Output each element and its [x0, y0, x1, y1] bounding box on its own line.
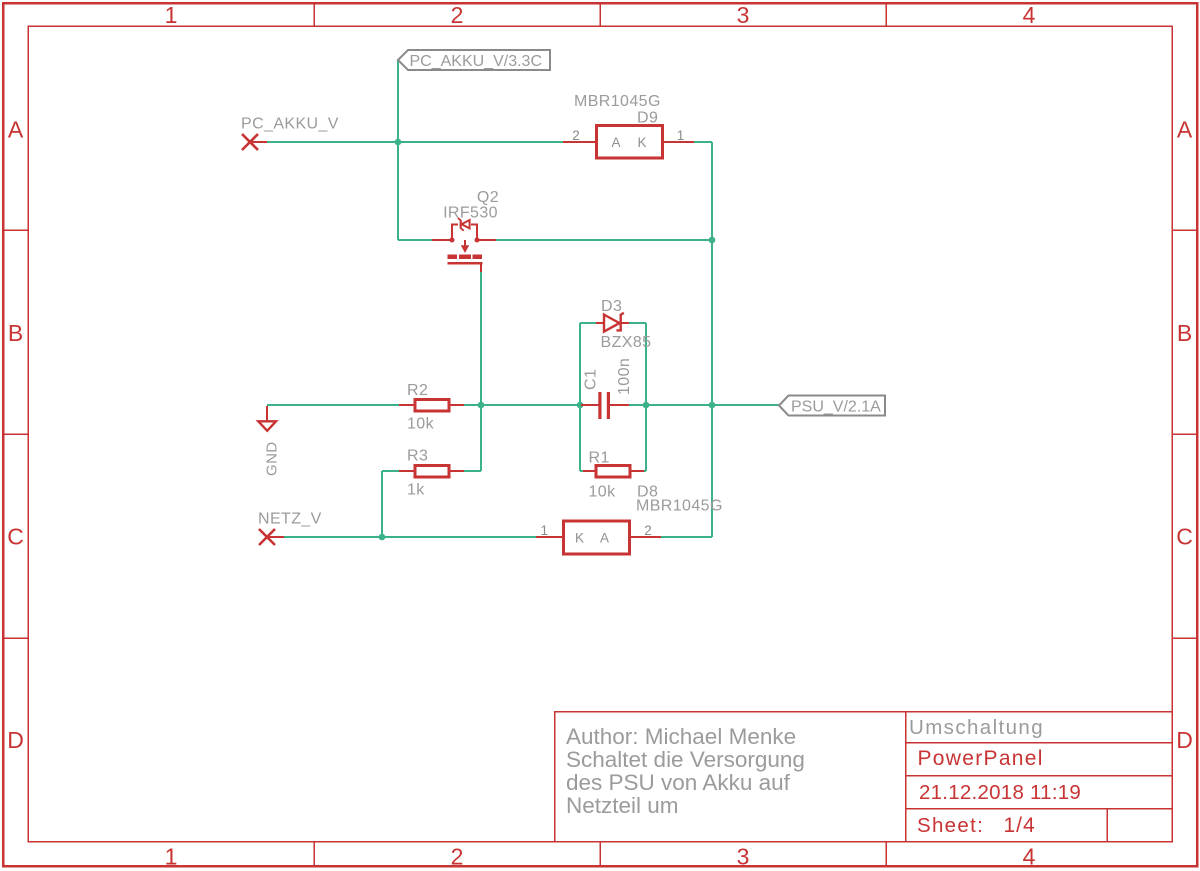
svg-text:A: A [600, 531, 609, 546]
svg-text:D9: D9 [637, 110, 658, 127]
svg-text:K: K [575, 531, 584, 546]
svg-text:3: 3 [737, 844, 750, 870]
svg-text:Netzteil um: Netzteil um [566, 793, 679, 818]
svg-text:Umschaltung: Umschaltung [909, 716, 1044, 739]
svg-text:B: B [1177, 320, 1192, 346]
svg-text:1: 1 [165, 2, 178, 28]
svg-text:A: A [1177, 117, 1193, 143]
svg-text:PC_AKKU_V: PC_AKKU_V [241, 116, 339, 133]
svg-text:D: D [1176, 727, 1193, 753]
svg-text:2: 2 [644, 523, 652, 538]
svg-text:C: C [1176, 524, 1193, 550]
svg-text:MBR1045G: MBR1045G [574, 93, 661, 110]
svg-text:1k: 1k [407, 482, 425, 499]
svg-text:des PSU von Akku auf: des PSU von Akku auf [566, 770, 791, 795]
svg-text:IRF530: IRF530 [443, 205, 498, 222]
svg-text:1: 1 [541, 523, 549, 538]
svg-text:2: 2 [451, 844, 464, 870]
svg-text:2: 2 [451, 2, 464, 28]
svg-text:D3: D3 [601, 298, 622, 315]
svg-text:Author: Michael Menke: Author: Michael Menke [566, 724, 796, 749]
svg-text:4: 4 [1023, 844, 1036, 870]
svg-text:C1: C1 [583, 369, 600, 390]
svg-text:A: A [8, 117, 24, 143]
svg-text:NETZ_V: NETZ_V [258, 511, 322, 528]
svg-text:100n: 100n [616, 358, 633, 395]
svg-text:D: D [7, 727, 24, 753]
svg-text:1: 1 [677, 128, 685, 143]
svg-text:Sheet:: Sheet: [917, 814, 984, 837]
svg-text:10k: 10k [407, 416, 435, 433]
svg-text:R1: R1 [589, 450, 610, 467]
svg-text:4: 4 [1023, 2, 1036, 28]
svg-text:B: B [8, 320, 23, 346]
svg-text:10k: 10k [589, 484, 617, 501]
svg-text:MBR1045G: MBR1045G [636, 498, 723, 515]
svg-text:3: 3 [737, 2, 750, 28]
svg-text:21.12.2018 11:19: 21.12.2018 11:19 [919, 781, 1081, 804]
svg-text:PowerPanel: PowerPanel [918, 747, 1044, 770]
svg-text:C: C [7, 524, 24, 550]
svg-text:PSU_V/2.1A: PSU_V/2.1A [791, 399, 881, 416]
svg-text:Schaltet die Versorgung: Schaltet die Versorgung [566, 747, 805, 772]
svg-text:1/4: 1/4 [1004, 814, 1036, 837]
svg-text:GND: GND [264, 441, 281, 476]
svg-text:K: K [637, 135, 646, 150]
svg-text:A: A [611, 135, 620, 150]
svg-text:BZX85: BZX85 [601, 334, 652, 351]
svg-text:PC_AKKU_V/3.3C: PC_AKKU_V/3.3C [410, 53, 543, 70]
svg-text:R3: R3 [407, 448, 428, 465]
svg-text:Q2: Q2 [477, 189, 499, 206]
svg-text:1: 1 [165, 844, 178, 870]
svg-text:R2: R2 [407, 382, 428, 399]
svg-text:2: 2 [572, 128, 580, 143]
